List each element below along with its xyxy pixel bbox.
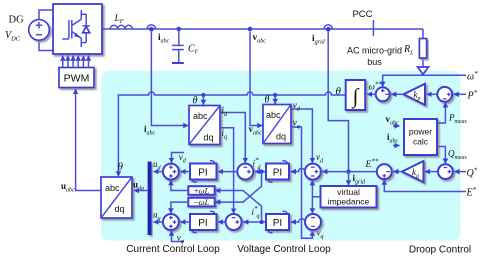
wire: v_d output (291, 109, 312, 163)
wire: i_d output (220, 113, 245, 164)
wire: theta arrow into i abc/dq (202, 95, 204, 105)
node v_abc tap (248, 27, 253, 32)
svg-text:∫: ∫ (351, 84, 360, 109)
svg-text:Droop Control: Droop Control (409, 245, 471, 256)
block dq/abc (modulation) (101, 177, 132, 218)
wire: i_grid drop to virtual impedance (328, 32, 348, 185)
svg-text:abc: abc (105, 183, 120, 193)
svg-text:abc: abc (266, 110, 281, 120)
svg-text:bus: bus (367, 57, 382, 67)
block abc/dq (current) (189, 106, 220, 145)
svg-text:calc: calc (413, 137, 429, 147)
wire: Q circle to k_q (425, 171, 438, 173)
PWM block (59, 68, 94, 88)
wire: omega** to integrator (367, 93, 376, 95)
svg-text:Current Control Loop: Current Control Loop (126, 244, 220, 255)
svg-text:PI: PI (198, 218, 207, 229)
summing u_q (163, 214, 179, 230)
ground arrow (open) (418, 67, 429, 74)
svg-text:AC micro-grid: AC micro-grid (347, 46, 402, 56)
wire: u_abc to PWM (76, 89, 101, 191)
control section background (cyan) (101, 71, 461, 241)
node tap q (259, 220, 263, 224)
svg-text:impedance: impedance (328, 197, 370, 207)
wire: DC source to inverter (top and bottom leads) (39, 10, 53, 51)
wire: Q_meas (437, 147, 445, 164)
wire: k_q out to E** (393, 171, 402, 173)
wire: Q* reference (454, 171, 466, 173)
node tap d (259, 169, 263, 173)
IGBT symbol inside inverter (62, 10, 86, 47)
wire: virtual impedance out, split to v_d* and v_q* (312, 196, 320, 198)
summing i_q* (226, 214, 242, 230)
power calc block (404, 119, 437, 155)
gate drive arrows PWM to inverter (63, 56, 89, 68)
wire: v_d* out to PI (hop over v_q line) (291, 168, 305, 171)
svg-text:dq: dq (204, 133, 214, 143)
wire: v_abc drop to abc/dq (250, 32, 262, 126)
v_d feedforward stub (172, 153, 185, 164)
PI block (current q) (190, 214, 217, 230)
summing v_q* (305, 214, 321, 230)
svg-text:dq: dq (276, 132, 286, 142)
node: i_grid joins E** line (346, 169, 350, 173)
node i_grid tap (326, 27, 331, 32)
svg-text:power: power (409, 127, 432, 137)
svg-text:+ωL: +ωL (194, 186, 210, 196)
gain k_q (402, 161, 424, 182)
svg-text:PCC: PCC (352, 9, 372, 20)
node theta tap 2 (273, 93, 277, 97)
u_dq bus bar (148, 162, 152, 236)
wire: u_q to bar (154, 221, 163, 223)
wire: PI out to u_q (181, 221, 191, 223)
PI block (current d) (190, 164, 217, 180)
summing Q (438, 164, 453, 179)
i_abc stub into power calc (393, 145, 400, 147)
wire: u_d to bar (154, 171, 163, 173)
wire: AC bus from inverter to R_L branch (102, 28, 423, 30)
wire: voltage PI d out to i_d* with tap (255, 171, 266, 173)
summing v_d* (305, 164, 321, 180)
inductor L_F (110, 25, 132, 29)
integrator block (346, 80, 366, 110)
wire: theta arrow into v abc/dq (274, 95, 276, 104)
svg-text:θ: θ (336, 86, 342, 98)
svg-text:PI: PI (198, 168, 207, 179)
wire: cross-coupling q to +wL (215, 191, 261, 220)
node: capacitor junction (177, 27, 182, 32)
svg-text:PI: PI (273, 218, 282, 229)
wire: i_d* out to PI (218, 171, 237, 173)
capacitor C_F (172, 29, 184, 62)
summing E** (377, 164, 392, 179)
wire: theta line from integrator to dq/abc blocks (118, 92, 345, 176)
wire: omega* reference (383, 75, 466, 87)
wire: P_meas (437, 102, 445, 123)
PI block (voltage q) (266, 214, 289, 230)
wire: P* reference (454, 93, 466, 95)
svg-text:θ: θ (118, 161, 124, 173)
wire: voltage PI q out to i_q* with tap (243, 221, 266, 223)
block abc/dq (voltage) (263, 105, 291, 144)
wire: v_q* out to PI (hop over v_q line) (291, 219, 305, 222)
inverter U1 (IGBT bridge box) (53, 4, 102, 54)
gain k_p (404, 84, 426, 105)
wire: P circle to k_p (427, 93, 438, 95)
svg-text:PWM: PWM (64, 73, 90, 85)
wire: i_q* out to PI (218, 221, 226, 223)
wire: u_dq into dq/abc (134, 190, 148, 192)
svg-text:Voltage Control Loop: Voltage Control Loop (237, 244, 331, 255)
svg-text:virtual: virtual (337, 187, 360, 197)
wire: R_L branch down (422, 29, 424, 67)
wire: i_abc drop to abc/dq (151, 32, 188, 126)
svg-text:PI: PI (273, 168, 282, 179)
DC source V_DC (29, 20, 50, 41)
virtual impedance block (321, 186, 377, 208)
summing P (437, 87, 452, 102)
node i_abc tap (149, 27, 154, 32)
wire: E* reference (384, 180, 466, 192)
wire: v_q output (down and around) (291, 127, 312, 238)
summing omega** (376, 87, 390, 101)
PI block (voltage d) (266, 164, 289, 180)
v_q feedforward stub (172, 231, 185, 242)
wire: cross-coupling d to -wL (215, 174, 261, 202)
svg-text:−ωL: −ωL (194, 197, 210, 207)
resistor R_L (419, 39, 426, 59)
block +wL (188, 186, 214, 195)
svg-text:DG: DG (9, 15, 25, 26)
block -wL (188, 198, 214, 207)
v_abc stub into power calc (393, 125, 400, 127)
summing i_d* (237, 164, 253, 180)
node theta tap 1 (201, 93, 205, 97)
wire: PI out to u_d (181, 171, 191, 173)
svg-text:dq: dq (115, 204, 125, 214)
freewheel diode D1 (83, 14, 90, 42)
wire: i_q output (220, 128, 234, 214)
summing u_d (163, 164, 179, 180)
wire: -wL out to u_q top (171, 202, 188, 213)
node PCC tick (372, 20, 374, 36)
wire: +wL out to u_d bottom (171, 180, 188, 190)
wire: k_p out to omega** (391, 93, 403, 95)
wire: E** to v_d* (322, 171, 377, 173)
svg-text:abc: abc (193, 111, 208, 121)
IGBT emitter arrow (74, 33, 80, 38)
